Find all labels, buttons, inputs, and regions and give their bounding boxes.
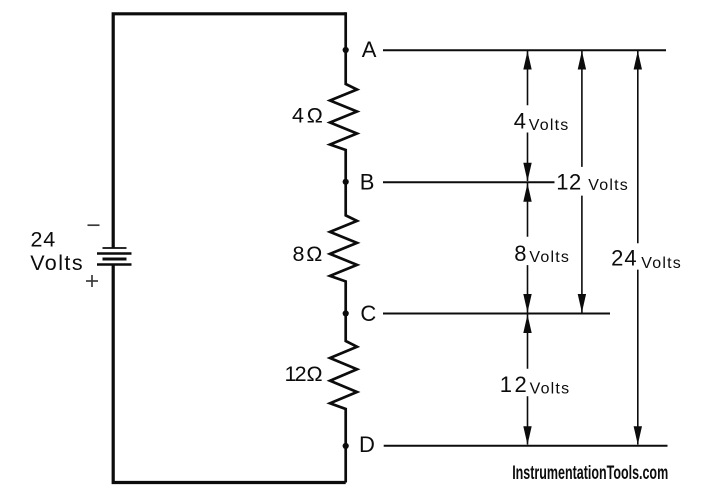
svg-text:Volts: Volts [588,177,629,194]
svg-text:4: 4 [514,108,526,133]
svg-text:4: 4 [292,103,304,127]
svg-text:A: A [362,37,377,62]
svg-text:24: 24 [31,227,57,251]
svg-text:Ω: Ω [307,362,323,386]
svg-text:D: D [359,432,375,457]
svg-text:12: 12 [556,170,582,195]
svg-text:InstrumentationTools.com: InstrumentationTools.com [512,463,668,484]
svg-text:Volts: Volts [641,255,682,272]
svg-text:Volts: Volts [529,249,570,266]
svg-text:12: 12 [285,362,306,386]
svg-text:8: 8 [514,241,526,266]
svg-text:Volts: Volts [529,117,570,134]
svg-text:8: 8 [293,242,305,266]
svg-text:Ω: Ω [306,242,322,266]
svg-text:Volts: Volts [530,381,571,398]
svg-text:Ω: Ω [307,103,323,127]
svg-text:B: B [360,169,375,194]
svg-text:12: 12 [500,372,529,397]
svg-text:Volts: Volts [30,251,84,275]
svg-text:C: C [360,301,376,326]
svg-text:24: 24 [611,245,637,270]
